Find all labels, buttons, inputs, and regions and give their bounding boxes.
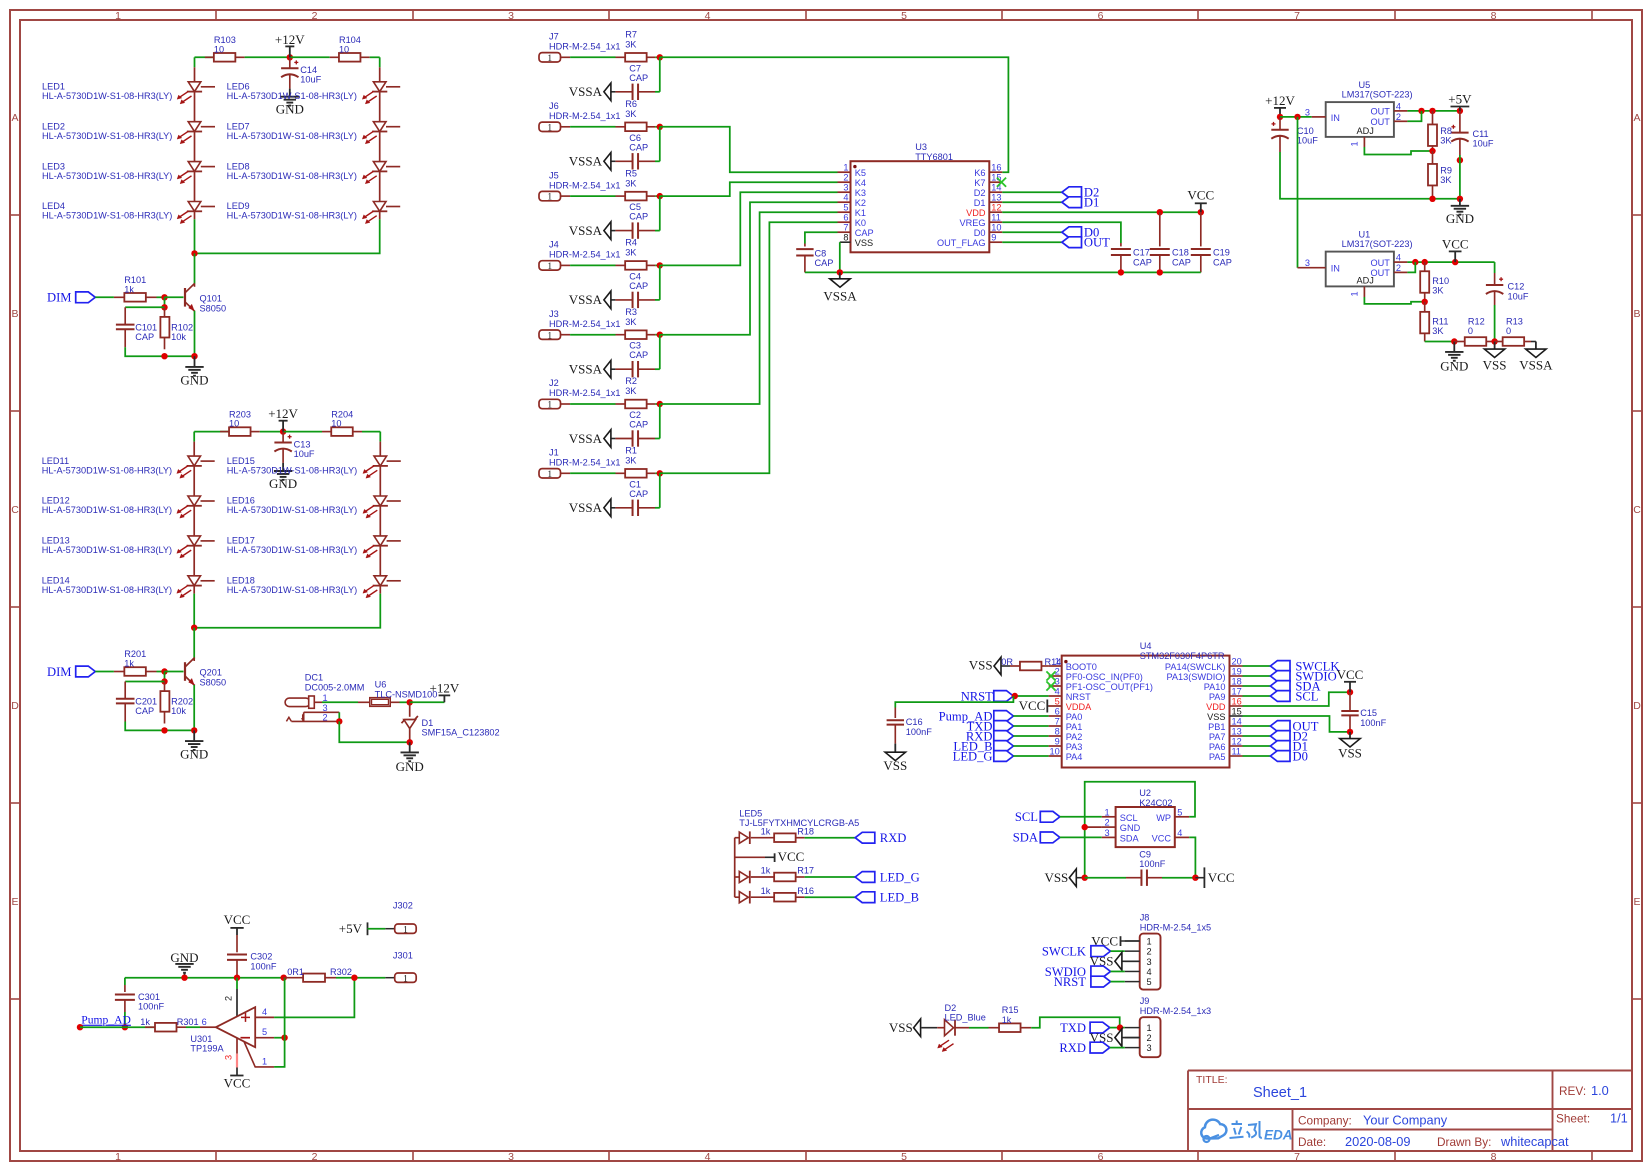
svg-text:HDR-M-2.54_1x1: HDR-M-2.54_1x1 [549, 111, 620, 121]
no-connect X on U4 pin 2 [1046, 671, 1055, 680]
LED LED6 [227, 67, 401, 104]
svg-text:HL-A-5730D1W-S1-08-HR3(LY): HL-A-5730D1W-S1-08-HR3(LY) [227, 171, 357, 181]
power flag +12V [268, 406, 298, 432]
svg-text:10uF: 10uF [294, 449, 315, 459]
resistor R10 [1420, 262, 1449, 302]
wire [260, 431, 283, 433]
junction [191, 625, 197, 631]
svg-text:0: 0 [1506, 326, 1511, 336]
svg-text:VCC: VCC [224, 1076, 251, 1091]
wire pin4 feedback [274, 978, 354, 1018]
svg-text:0R1: 0R1 [287, 967, 304, 977]
svg-text:3K: 3K [625, 109, 637, 119]
wire [1002, 201, 1062, 203]
wire [193, 586, 195, 594]
capacitor C2 [615, 410, 659, 447]
capacitor C201 [116, 682, 157, 722]
power flag VSS [1044, 869, 1084, 887]
junction [1452, 259, 1458, 265]
ground GND [1440, 342, 1468, 374]
svg-text:18: 18 [1232, 677, 1242, 687]
wire [379, 211, 381, 219]
capacitor C1 [615, 479, 659, 516]
svg-text:R301: R301 [177, 1017, 199, 1027]
svg-text:HDR-M-2.54_1x1: HDR-M-2.54_1x1 [549, 319, 620, 329]
svg-text:3K: 3K [1432, 286, 1444, 296]
resistor R204 [322, 409, 362, 436]
svg-text:PF0-OSC_IN(PF0): PF0-OSC_IN(PF0) [1066, 672, 1143, 682]
wire [194, 57, 196, 67]
power flag +5V [1448, 92, 1472, 111]
svg-text:8: 8 [1055, 727, 1060, 737]
power flag VCC [1187, 188, 1214, 213]
power flag VSS [889, 1019, 937, 1037]
wire [336, 977, 385, 979]
net flag SWDIO [1045, 965, 1111, 979]
svg-text:LED_G: LED_G [880, 871, 920, 885]
resistor R102 [160, 307, 193, 349]
svg-text:R11: R11 [1432, 316, 1448, 326]
svg-text:10k: 10k [171, 332, 186, 342]
svg-text:HL-A-5730D1W-S1-08-HR3(LY): HL-A-5730D1W-S1-08-HR3(LY) [227, 91, 357, 101]
svg-text:PB1: PB1 [1208, 722, 1225, 732]
wire [655, 403, 660, 405]
svg-text:1: 1 [115, 1151, 121, 1163]
net flag TXD [1060, 1021, 1110, 1035]
svg-text:Sheet_1: Sheet_1 [1253, 1085, 1307, 1101]
svg-text:2: 2 [843, 173, 848, 183]
junction [281, 1035, 287, 1041]
svg-text:5: 5 [1177, 807, 1182, 817]
power flag VCC [735, 849, 805, 864]
svg-text:10k: 10k [171, 706, 186, 716]
svg-text:C18: C18 [1172, 248, 1189, 258]
svg-text:PF1-OSC_OUT(PF1): PF1-OSC_OUT(PF1) [1066, 682, 1153, 692]
svg-text:2: 2 [312, 10, 318, 22]
svg-text:CAP: CAP [135, 706, 154, 716]
capacitor C11 [1451, 111, 1494, 155]
LED LED16 [227, 466, 401, 518]
svg-text:ADJ: ADJ [1357, 276, 1374, 286]
power flag VSSA [569, 222, 616, 240]
LED module LED5 [735, 809, 860, 898]
wire [1243, 685, 1271, 687]
wire [370, 56, 380, 58]
svg-text:VSSA: VSSA [569, 292, 603, 307]
svg-text:6: 6 [1098, 1151, 1104, 1163]
svg-text:20: 20 [1232, 657, 1242, 667]
svg-text:C2: C2 [629, 410, 641, 420]
wire [659, 127, 661, 162]
connector J6 [539, 101, 620, 133]
power flag VSS [883, 744, 907, 773]
wire [659, 473, 661, 508]
svg-text:1: 1 [115, 10, 121, 22]
power flag +12V [275, 32, 305, 58]
svg-text:DIM: DIM [47, 665, 72, 679]
svg-text:R3: R3 [625, 307, 637, 317]
wire [839, 242, 841, 272]
wire [157, 296, 165, 298]
svg-text:LED5: LED5 [739, 809, 762, 819]
wire [1002, 241, 1062, 243]
junction [1157, 209, 1163, 215]
net flag Pump_AD [939, 709, 1014, 723]
wire [655, 264, 660, 266]
svg-text:3K: 3K [625, 40, 637, 50]
resistor R104 [330, 35, 370, 62]
resistor R4 [616, 238, 656, 270]
net flag LED_G [855, 871, 919, 885]
svg-text:R12: R12 [1468, 316, 1485, 326]
svg-text:CAP: CAP [135, 332, 154, 342]
resistor R202 [160, 682, 193, 724]
svg-text:3: 3 [1147, 1043, 1152, 1053]
junction [1491, 338, 1497, 344]
svg-text:3: 3 [1305, 258, 1310, 268]
net flag SCL [1015, 810, 1060, 824]
svg-text:HL-A-5730D1W-S1-08-HR3(LY): HL-A-5730D1W-S1-08-HR3(LY) [42, 465, 172, 475]
power flag VSSA [1519, 342, 1553, 373]
svg-text:STM32F030F4P6TR: STM32F030F4P6TR [1140, 651, 1225, 661]
svg-text:NRST: NRST [961, 689, 993, 703]
svg-text:3K: 3K [625, 456, 637, 466]
svg-text:10: 10 [214, 44, 224, 54]
svg-text:VDD: VDD [966, 208, 986, 218]
junction [161, 353, 167, 359]
resistor R203 [220, 409, 260, 436]
svg-text:J1: J1 [549, 448, 559, 458]
svg-text:6: 6 [1098, 10, 1104, 22]
ground GND [180, 356, 208, 387]
junction [1012, 693, 1018, 699]
LED LED7 [227, 92, 401, 144]
svg-text:D2: D2 [974, 188, 986, 198]
wire [95, 671, 114, 673]
LED LED9 [227, 171, 401, 223]
svg-text:R13: R13 [1506, 316, 1523, 326]
svg-text:J4: J4 [549, 240, 559, 250]
svg-text:3K: 3K [1440, 136, 1452, 146]
capacitor C13 [274, 432, 315, 463]
svg-text:D: D [1633, 700, 1641, 712]
svg-text:LED4: LED4 [42, 201, 65, 211]
wire [655, 195, 660, 197]
LED LED2 [42, 92, 215, 144]
svg-text:1: 1 [1350, 291, 1360, 296]
LED LED8 [227, 132, 401, 184]
svg-text:10uF: 10uF [1508, 291, 1529, 301]
wire [570, 264, 615, 266]
svg-text:R6: R6 [625, 99, 637, 109]
svg-text:HDR-M-2.54_1x1: HDR-M-2.54_1x1 [549, 180, 620, 190]
resistor R302 [284, 967, 352, 982]
svg-text:3K: 3K [625, 317, 637, 327]
junction [657, 124, 663, 130]
wire [1013, 715, 1048, 717]
junction [1412, 259, 1418, 265]
junction [657, 332, 663, 338]
svg-text:5: 5 [262, 1027, 267, 1037]
connector J1 [539, 448, 620, 480]
junction [1118, 269, 1124, 275]
power flag +12V [430, 681, 460, 703]
resistor R2 [616, 376, 656, 408]
svg-text:GND: GND [1446, 211, 1474, 226]
wire [1243, 695, 1271, 697]
svg-text:HDR-M-2.54_1x1: HDR-M-2.54_1x1 [549, 388, 620, 398]
svg-text:100nF: 100nF [1139, 859, 1165, 869]
resistor R15 [989, 1005, 1032, 1032]
svg-text:HL-A-5730D1W-S1-08-HR3(LY): HL-A-5730D1W-S1-08-HR3(LY) [227, 131, 357, 141]
power flag VSS [1483, 342, 1507, 373]
junction [1422, 299, 1428, 305]
svg-text:E: E [1633, 896, 1640, 908]
svg-text:HDR-M-2.54_1x1: HDR-M-2.54_1x1 [549, 458, 620, 468]
svg-text:D0: D0 [974, 228, 986, 238]
svg-text:GND: GND [1440, 359, 1468, 374]
resistor R101 [114, 275, 157, 302]
svg-text:3K: 3K [1432, 326, 1444, 336]
capacitor C16 [887, 708, 933, 744]
svg-text:S8050: S8050 [200, 303, 227, 313]
svg-text:15: 15 [1232, 707, 1242, 717]
resistor R8 [1428, 111, 1452, 151]
wire [400, 701, 410, 703]
svg-text:SWCLK: SWCLK [1042, 945, 1086, 959]
svg-text:B: B [1633, 308, 1640, 320]
capacitor C18 [1150, 212, 1191, 272]
svg-text:RXD: RXD [1059, 1041, 1086, 1055]
svg-text:HL-A-5730D1W-S1-08-HR3(LY): HL-A-5730D1W-S1-08-HR3(LY) [42, 505, 172, 515]
wire [339, 721, 409, 742]
svg-text:1: 1 [843, 163, 848, 173]
junction [1082, 824, 1088, 830]
svg-text:R202: R202 [171, 697, 193, 707]
junction [1429, 108, 1435, 114]
svg-text:19: 19 [1232, 667, 1242, 677]
svg-text:CAP: CAP [1172, 257, 1191, 267]
title block [1188, 1071, 1632, 1152]
capacitor C6 [615, 133, 659, 170]
svg-text:K7: K7 [974, 178, 985, 188]
svg-text:U6: U6 [375, 680, 387, 690]
svg-text:GND: GND [1120, 823, 1141, 833]
power flag VSS [1090, 1029, 1140, 1047]
net flag D1 [1270, 739, 1308, 753]
resistor R13 [1495, 316, 1536, 345]
svg-text:SMF15A_C123802: SMF15A_C123802 [422, 728, 500, 738]
svg-text:17: 17 [1232, 687, 1242, 697]
svg-text:C: C [11, 504, 19, 516]
wire [379, 57, 381, 67]
svg-text:12: 12 [1232, 737, 1242, 747]
power flag VSSA [569, 291, 616, 309]
wire gnd rail [125, 977, 284, 979]
svg-text:1: 1 [547, 54, 552, 64]
wire [368, 928, 386, 930]
svg-text:SCL: SCL [1120, 813, 1138, 823]
svg-text:C3: C3 [629, 341, 641, 351]
svg-text:1: 1 [547, 193, 552, 203]
junction [657, 262, 663, 268]
junction [1082, 875, 1088, 881]
connector J302 [385, 900, 416, 935]
svg-text:K1: K1 [855, 208, 866, 218]
svg-text:6: 6 [1055, 707, 1060, 717]
svg-text:GND: GND [170, 950, 198, 965]
junction [407, 699, 413, 705]
svg-text:K6: K6 [974, 168, 985, 178]
svg-text:1: 1 [547, 401, 552, 411]
svg-text:R15: R15 [1002, 1005, 1019, 1015]
svg-text:100nF: 100nF [138, 1002, 164, 1012]
wire NRST to C16 [895, 696, 1013, 708]
svg-text:5: 5 [901, 1151, 907, 1163]
svg-text:PA5: PA5 [1209, 752, 1226, 762]
svg-text:11: 11 [991, 213, 1001, 223]
svg-text:LED18: LED18 [227, 576, 255, 586]
svg-text:2: 2 [1147, 947, 1152, 957]
no-connect X on U3 pin 15 [997, 178, 1006, 187]
svg-text:+12V: +12V [1265, 93, 1295, 108]
wire pin2 out [1407, 262, 1415, 272]
wire [1243, 665, 1271, 667]
LED LED3 [42, 132, 215, 184]
svg-text:100nF: 100nF [906, 727, 932, 737]
svg-text:LED_Blue: LED_Blue [945, 1012, 986, 1022]
svg-text:TLC-NSMD100: TLC-NSMD100 [375, 689, 438, 699]
LED LED1 [42, 67, 215, 104]
transistor Q201 [185, 658, 226, 688]
wire [1425, 341, 1455, 343]
svg-text:+5V: +5V [339, 921, 363, 936]
port DIM [47, 665, 95, 679]
LED LED18 [227, 546, 401, 598]
svg-text:R18: R18 [797, 826, 814, 836]
svg-text:12: 12 [991, 203, 1001, 213]
net flag D2 [1270, 729, 1308, 743]
power flag VSSA [569, 153, 616, 171]
IC U3 TTY6801 [838, 142, 1003, 252]
connector DC1 [285, 673, 364, 723]
svg-text:1: 1 [547, 470, 552, 480]
junction [351, 975, 357, 981]
wire pin1 output [274, 1038, 285, 1067]
svg-text:TTY6801: TTY6801 [915, 152, 953, 162]
wire +12V to U1 [1297, 117, 1299, 268]
junction [407, 739, 413, 745]
junction [161, 668, 167, 674]
svg-text:TXD: TXD [1060, 1021, 1086, 1035]
svg-text:GND: GND [180, 747, 208, 762]
resistor R201 [114, 649, 157, 676]
svg-text:C13: C13 [294, 439, 311, 449]
power flag VSSA [569, 499, 616, 517]
svg-text:DC1: DC1 [305, 673, 323, 683]
net flag SDA [1013, 831, 1060, 845]
svg-text:VSSA: VSSA [569, 84, 603, 99]
capacitor C301 [115, 978, 165, 1027]
svg-text:1k: 1k [1002, 1015, 1012, 1025]
net flag SWDIO [1270, 669, 1336, 683]
net flag SCL [1270, 689, 1318, 703]
no-connect X on U4 pin 3 [1046, 681, 1055, 690]
junction [657, 470, 663, 476]
junction [161, 727, 167, 733]
svg-text:1: 1 [403, 974, 408, 984]
svg-text:D1: D1 [1084, 195, 1099, 209]
wire [290, 56, 330, 58]
svg-text:2: 2 [1396, 112, 1401, 122]
resistor R11 [1420, 302, 1448, 342]
net flag OUT [1062, 235, 1110, 249]
junction [161, 304, 167, 310]
svg-text:VDD: VDD [1206, 702, 1226, 712]
svg-text:VCC: VCC [1208, 870, 1235, 885]
svg-text:2020-08-09: 2020-08-09 [1345, 1134, 1410, 1149]
wire [660, 192, 838, 265]
svg-text:LED_B: LED_B [880, 891, 919, 905]
svg-text:1k: 1k [761, 866, 771, 876]
svg-text:J2: J2 [549, 378, 559, 388]
capacitor C7 [615, 63, 659, 100]
wire [1459, 155, 1461, 199]
capacitor C10 [1271, 117, 1318, 152]
svg-text:U301: U301 [190, 1034, 212, 1044]
svg-text:U1: U1 [1359, 230, 1371, 240]
svg-text:PA14(SWCLK): PA14(SWCLK) [1165, 662, 1226, 672]
svg-text:2: 2 [1104, 818, 1109, 828]
junction [181, 975, 187, 981]
wire [659, 404, 661, 439]
resistor R7 [616, 30, 656, 62]
wire pin5 [274, 1037, 285, 1039]
junction [287, 54, 293, 60]
connector J9 HDR-M-2.54_1x3 [1125, 996, 1211, 1057]
LED diode LED_B [735, 891, 775, 904]
svg-text:7: 7 [1294, 10, 1300, 22]
wire pin2 out [1407, 111, 1421, 121]
wire [379, 586, 381, 594]
svg-text:+12V: +12V [268, 406, 298, 421]
svg-text:7: 7 [843, 223, 848, 233]
capacitor C9 [1085, 850, 1196, 886]
wire [805, 232, 838, 243]
svg-text:7: 7 [1055, 717, 1060, 727]
svg-text:R102: R102 [171, 323, 193, 333]
wire [164, 672, 166, 682]
net flag TXD [967, 719, 1014, 733]
IC U5 LM317(SOT-223) [1305, 80, 1413, 147]
svg-text:VSS: VSS [1044, 870, 1068, 885]
connector J4 [539, 240, 620, 272]
svg-text:CAP: CAP [629, 350, 648, 360]
svg-text:4: 4 [262, 1007, 267, 1017]
wire WP-GND loop [1085, 782, 1195, 878]
wire [660, 127, 838, 172]
wire [660, 222, 838, 473]
svg-text:C10: C10 [1297, 126, 1314, 136]
connector J8 HDR-M-2.54_1x5 [1125, 913, 1211, 990]
wire [362, 431, 380, 433]
capacitor C3 [615, 341, 659, 378]
wire ADJ [1364, 297, 1424, 304]
net flag SDA [1270, 679, 1320, 693]
LED LED15 [227, 442, 401, 479]
svg-text:LM317(SOT-223): LM317(SOT-223) [1342, 239, 1413, 249]
svg-text:VCC: VCC [1152, 834, 1172, 844]
